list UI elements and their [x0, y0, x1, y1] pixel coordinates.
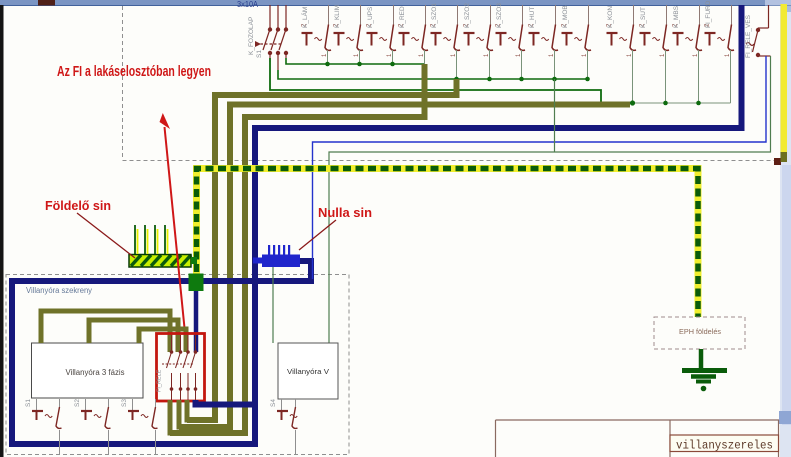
left black border [0, 5, 4, 457]
svg-text:K_SZO1: K_SZO1 [431, 3, 438, 28]
Foldelo sin teeth [135, 225, 168, 254]
olive U loop U1 [170, 400, 245, 433]
meter V box [278, 343, 338, 399]
breaker K_UPS [367, 5, 397, 57]
scrollbar strip right [779, 0, 791, 457]
svg-text:K_KON: K_KON [607, 6, 614, 28]
breaker K_HUT [529, 5, 559, 57]
green drop from bus2 to line152 [554, 79, 556, 152]
FI box internals [162, 335, 196, 400]
breaker K_RED [399, 5, 429, 57]
svg-text:K_RED: K_RED [399, 6, 406, 28]
olive cable B (right group -> U2) [179, 105, 630, 428]
thin green line FI relay -> V meter [329, 56, 771, 343]
svg-text:K_MOB: K_MOB [562, 5, 569, 28]
olive meter feeds [41, 311, 170, 352]
navy drop square -> FI pole4 [194, 291, 199, 352]
svg-text:Földelő sin: Földelő sin [45, 198, 111, 213]
Foldelo sin busbar [129, 255, 197, 268]
olive U loop U2 [179, 400, 230, 427]
svg-text:EPH földelés: EPH földelés [679, 327, 721, 336]
svg-text:FI_RELE_VES: FI_RELE_VES [745, 14, 752, 58]
breaker S4 (meter output) [270, 399, 298, 454]
svg-text:S4: S4 [270, 399, 277, 407]
green pole1 feeder to right group [270, 58, 633, 103]
thin blue neutral line FI relay -> nulla loop [313, 56, 767, 279]
green line nulla bar -> V meter [272, 267, 274, 343]
FI_RELE_VES switch (top right) [746, 5, 771, 56]
svg-text:K_SZO3: K_SZO3 [496, 3, 503, 28]
green bus2 y79: K_SZO..K_MOB [278, 70, 588, 79]
yellow selected wire right edge [781, 4, 788, 162]
green bus1 y64: K_LAM..K_RED [286, 58, 425, 64]
svg-text:S1: S1 [256, 50, 263, 58]
main breaker K_FOZOLAP (3-pole) [256, 5, 286, 70]
junction dot on dashed line [774, 158, 781, 165]
breaker K_SZO1 [431, 3, 461, 57]
svg-text:S1: S1 [25, 399, 32, 407]
navy FI pole4 -> main vertical [196, 400, 256, 405]
svg-text:K_MBS: K_MBS [673, 5, 680, 28]
svg-text:S3: S3 [121, 399, 128, 407]
pointer nulla [299, 220, 336, 250]
earth ground symbol [682, 349, 727, 382]
breaker S2 (meter output) [74, 399, 111, 454]
FI box [157, 334, 205, 402]
svg-text:K_SZO2: K_SZO2 [464, 3, 471, 28]
top window title bar [0, 0, 791, 6]
breaker K_MOB [562, 5, 592, 57]
svg-text:FI_RELE: FI_RELE [157, 369, 163, 392]
olive cable C (K_RED -> U1) [170, 64, 425, 433]
EPH foldeles box [654, 317, 745, 349]
cabinet dashed rect [6, 275, 349, 455]
dashed panel rect left edge [122, 6, 124, 160]
breaker K_SUT [640, 5, 670, 57]
meter 3 fazis box [32, 343, 144, 398]
breaker K_MBS [673, 5, 703, 57]
breaker S3 (meter output) [121, 399, 158, 454]
svg-text:3x10A: 3x10A [237, 0, 259, 9]
PE earth wire yellow/green dashed [197, 169, 699, 318]
svg-text:S2: S2 [74, 399, 81, 407]
svg-text:K_HUT: K_HUT [529, 7, 536, 28]
svg-text:Az FI a lakáselosztóban legyen: Az FI a lakáselosztóban legyen [57, 64, 211, 80]
breaker K_LÁM [300, 5, 331, 57]
svg-text:Villanyóra szekreny: Villanyóra szekreny [26, 286, 92, 295]
breaker S1 (meter output) [25, 399, 62, 454]
green junction square [189, 274, 204, 292]
breaker K_KON [607, 5, 637, 57]
svg-text:K_FOZOLAP: K_FOZOLAP [248, 17, 255, 55]
olive cable A (bus2 -> U3) [187, 79, 457, 420]
svg-text:Nulla sin: Nulla sin [318, 205, 372, 220]
olive U loop U3 [187, 400, 215, 420]
svg-text:K_LÁM: K_LÁM [300, 7, 309, 28]
svg-text:K_SUT: K_SUT [640, 7, 647, 28]
svg-text:FI_FURD: FI_FURD [705, 0, 712, 28]
svg-text:Villanyóra 3 fázis: Villanyóra 3 fázis [66, 368, 125, 377]
red arrow FI box -> note [160, 113, 186, 333]
dashed panel rect bottom edge [123, 160, 781, 162]
pointer foldelo [77, 213, 135, 258]
svg-text:K_UPS: K_UPS [367, 6, 374, 28]
svg-text:villanyszereles: villanyszereles [676, 439, 773, 453]
breaker K_KLIM [334, 5, 364, 57]
right group collector [633, 50, 731, 103]
breaker K_SZO3 [496, 3, 526, 57]
breaker K_SZO2 [464, 3, 494, 57]
title block [496, 420, 780, 457]
breaker FI_FURD [705, 0, 735, 57]
Nulla sin busbar [253, 245, 300, 267]
svg-text:Villanyóra V: Villanyóra V [287, 367, 329, 376]
svg-text:K_KLIM: K_KLIM [334, 5, 341, 28]
